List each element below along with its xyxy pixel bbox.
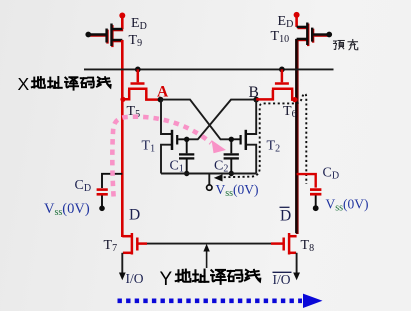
pink highlighted read path [112,117,211,197]
node B dot [253,97,259,103]
wire B down to T2 drain [247,100,256,134]
node A dot [158,97,164,103]
wire bitline D (left, red vertical) [121,40,124,237]
blue dashed data-flow arrow [118,298,303,303]
junction dot T6-bitline (red) [292,97,297,102]
svg-text:T2: T2 [267,139,281,155]
blue arrowhead [303,294,323,308]
transistor T10 (red underlay) [298,24,330,46]
ground terminal circle [207,185,212,190]
svg-text:T7: T7 [104,238,118,254]
terminal dot T10 gate precharge [326,32,332,38]
Y line select arrow (up) [206,250,208,268]
svg-text:T1: T1 [142,139,156,155]
dotted read path through T6 [219,94,306,184]
svg-text:C2: C2 [214,159,228,175]
transistor T1 [172,130,187,150]
transistor T9 [89,24,122,47]
transistor T6 [256,69,296,99]
capacitor CD left [97,174,123,206]
svg-text:X: X [18,74,30,94]
svg-text:T8: T8 [301,238,315,254]
transistor T2 [231,130,246,150]
transistor T7 [122,233,147,255]
wire cross-couple A to T2 gate [161,100,232,140]
svg-text:I/O: I/O [273,272,291,287]
capacitor CD right [297,174,322,206]
junction dot C2 bottom [229,171,234,176]
svg-text:D: D [280,208,291,225]
wire Y address decode line [147,243,271,245]
wire cross-couple B to T1 gate [187,100,257,140]
wire ED to T10 drain [295,15,298,27]
wire bitline Dbar dark core [295,39,297,233]
junction dot T1 gate / C1 [184,137,189,142]
wire T7 source to I/O arrow [121,253,123,274]
arrowhead I/O left (down) [119,273,126,281]
dotted path arrowhead (points left at Vss) [214,174,223,181]
svg-text:CD: CD [75,178,92,194]
capacitor C1 [179,139,194,173]
terminal dot CD left [99,206,105,212]
svg-text:I/O: I/O [126,271,144,286]
terminal dot T9 gate [85,32,91,38]
junction dot T5 gate on X line [135,67,141,73]
node ED1 supply dot left [119,13,125,19]
wire A down to T1 drain [161,100,171,134]
wire X address decode line [84,68,334,70]
junction dot T2 gate / C2 [229,137,234,142]
svg-text:Vss(0V): Vss(0V) [44,201,90,218]
wire T1 source down [161,145,171,174]
junction dot T6 gate on X line [279,67,285,73]
svg-text:C1: C1 [170,159,184,175]
svg-text:Y: Y [160,269,173,290]
svg-text:T10: T10 [271,29,290,45]
transistor T9 (red underlay) [90,25,123,47]
svg-text:CD: CD [323,166,340,182]
wire ED to T9 drain [121,16,124,30]
node ED2 supply dot right [294,12,300,18]
label precharge (yu chong) [334,40,358,50]
junction dot T5-bitline (red) [120,97,125,102]
transistor T8 [271,233,297,255]
transistor T10 [297,23,329,46]
terminal dot CD right [313,205,319,211]
wire bitline Dbar (right, dark, red underlay) [296,40,299,234]
wire T2 source down [247,145,256,174]
capacitor C2 [224,139,239,173]
junction dot C1 bottom [184,171,189,176]
arrowhead I/O right (down) [293,273,300,281]
svg-text:Vss(0V): Vss(0V) [216,182,259,199]
svg-text:ED: ED [278,14,294,30]
transistor T5 [122,69,160,99]
pink path arrowhead [212,140,227,153]
svg-text:T6: T6 [283,104,297,120]
wire T8 source to I/O arrow [296,253,298,274]
svg-text:ED: ED [131,16,147,32]
svg-text:Vss(0V): Vss(0V) [326,197,369,214]
svg-text:D: D [129,207,140,224]
wire ground stub [208,174,210,185]
wire flip-flop source rail [161,173,256,175]
svg-text:T9: T9 [129,33,143,49]
